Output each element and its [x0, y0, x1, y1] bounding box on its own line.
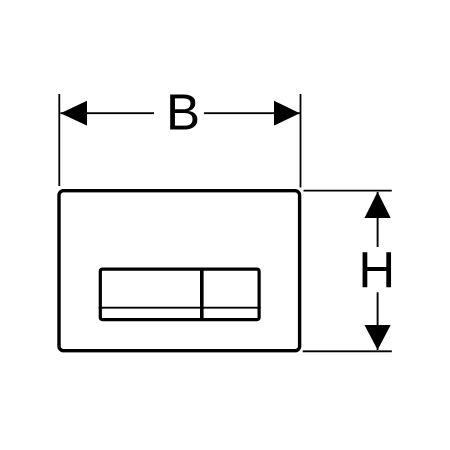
button frame [100, 269, 259, 320]
dimension line B right segment [204, 112, 300, 114]
extension line left (B) [58, 94, 60, 186]
extension line bottom (H) [303, 350, 392, 352]
arrowhead down [365, 325, 391, 350]
dimension line H lower segment [377, 292, 379, 350]
svg-text:H: H [358, 242, 395, 299]
arrowhead right [274, 101, 300, 126]
button horizontal line [99, 307, 261, 309]
button divider [200, 268, 204, 321]
dimension line H upper segment [377, 192, 379, 247]
dimension line B left segment [61, 112, 155, 114]
arrowhead left [61, 101, 88, 126]
extension line top (H) [304, 190, 392, 192]
extension line right (B) [300, 94, 302, 188]
svg-text:B: B [166, 84, 200, 141]
plate outline [59, 191, 300, 351]
arrowhead up [365, 192, 391, 218]
